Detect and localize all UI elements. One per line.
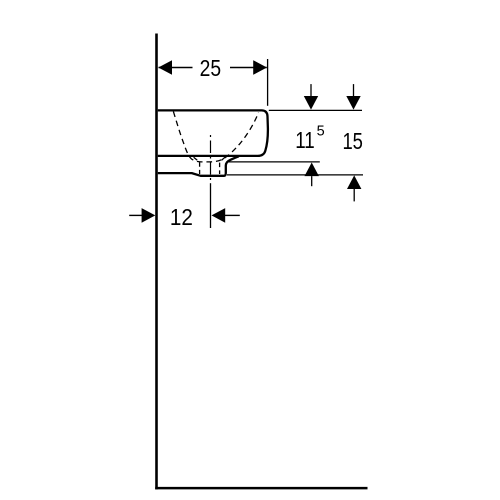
trap shroud outline under basin — [158, 156, 239, 176]
15 bottom arrow tail — [353, 189, 355, 201]
12 dimension right arrowhead (left pointing) — [212, 208, 226, 223]
top reference line (extension of basin top to the right) — [269, 109, 362, 111]
25 dimension right arrowhead — [253, 60, 267, 75]
12 dimension left arrowhead (right pointing) — [142, 208, 156, 223]
wall line — [155, 34, 158, 490]
25 label background — [193, 57, 231, 79]
15 top arrow tail — [353, 84, 355, 97]
15 bottom arrowhead (up) — [347, 175, 361, 189]
svg-text:12: 12 — [170, 204, 193, 230]
12 dimension right tail — [225, 214, 240, 216]
drain funnel hidden contour left (dashed) — [194, 157, 200, 174]
low reference line (15 bottom reference) — [227, 174, 363, 176]
15 top arrowhead (down) — [346, 96, 360, 110]
floor line — [155, 487, 367, 490]
11.5 top arrowhead (down) — [304, 96, 318, 110]
25 dimension left arrowhead — [158, 60, 172, 75]
drain funnel hidden contour right (dashed) — [220, 157, 225, 174]
basin outer profile (top, right edge, bottom) — [158, 110, 268, 155]
svg-text:5: 5 — [317, 123, 325, 139]
mid reference line (11.5 bottom reference) — [227, 161, 320, 163]
12 dimension line left tail — [129, 214, 142, 216]
drain centre line (dash-dot) — [210, 135, 212, 181]
25 dimension line — [159, 67, 267, 69]
svg-text:25: 25 — [200, 55, 222, 81]
svg-text:11: 11 — [295, 127, 315, 153]
25 dimension extension line — [267, 59, 269, 106]
11.5 top arrow tail — [310, 84, 312, 97]
11.5 bottom arrow tail — [311, 176, 313, 186]
centre line extension for 12 dimension — [210, 183, 212, 228]
inner bowl hidden contour (dashed) — [173, 112, 258, 162]
11.5 bottom arrowhead (up) — [305, 163, 319, 177]
svg-text:15: 15 — [342, 128, 363, 154]
